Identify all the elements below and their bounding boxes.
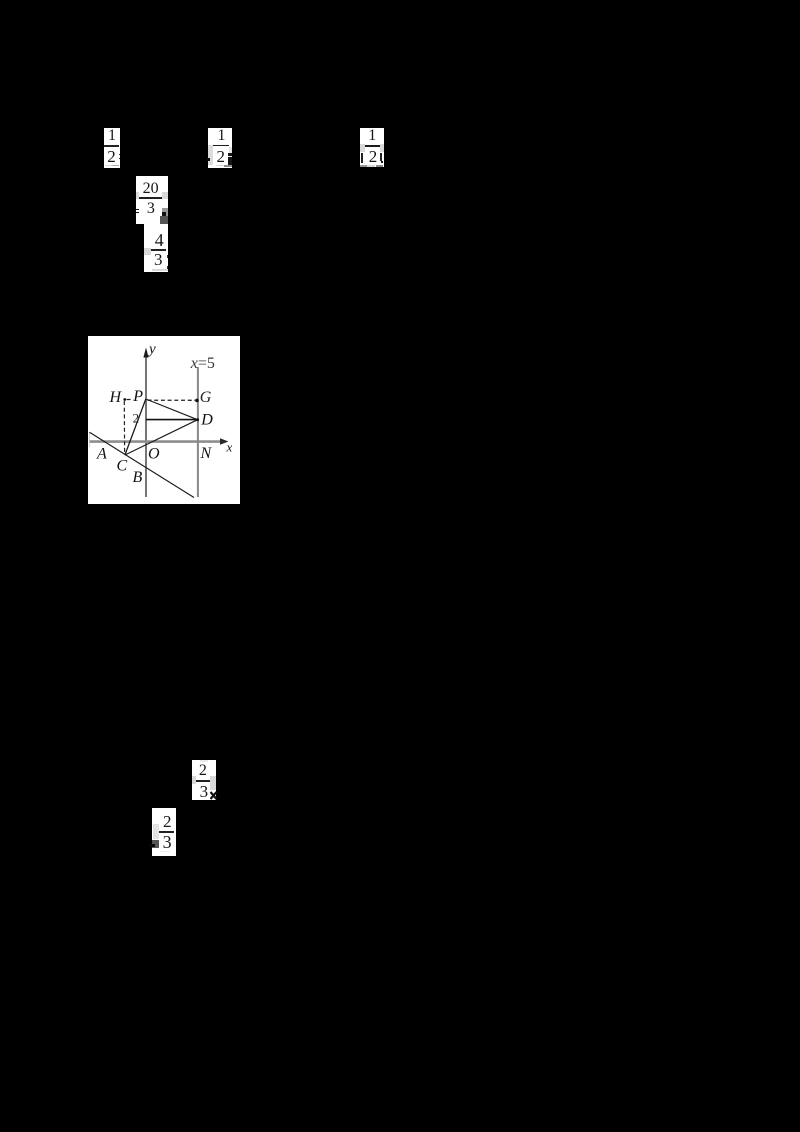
label x=5 <box>190 355 215 372</box>
fraction 1/2 (third) gray band left <box>360 144 365 152</box>
svg-text:G: G <box>200 389 212 406</box>
fraction 2/3 (upper) right wing <box>210 776 216 790</box>
svg-text:x=5: x=5 <box>190 355 215 372</box>
fraction 4/3 numerator 4 <box>151 231 167 249</box>
fraction 2/3 (lower) white patch <box>152 808 176 857</box>
fraction 4/3 white patch <box>144 224 168 272</box>
fraction 1/2 (second) left gray column <box>208 145 213 165</box>
dashed line H to C <box>123 401 125 454</box>
fraction 2/3 (lower) bottom faint strip <box>160 851 170 852</box>
fraction 2/3 (lower) black notch <box>150 844 155 848</box>
fraction 1/2 (second) numerator 1 <box>214 128 230 144</box>
fraction 2/3 (lower) left gray column <box>153 824 159 839</box>
dashed segment H to P <box>127 399 134 401</box>
svg-text:H: H <box>109 389 123 406</box>
comma after 20/3 <box>162 212 166 217</box>
dark gray block bottom right of 20/3 <box>160 216 168 223</box>
fraction 1/2 (third) gray band right <box>380 144 384 152</box>
label N <box>200 445 213 462</box>
label B <box>133 469 143 486</box>
label P <box>132 388 143 405</box>
fraction 1/2 (third) white patch <box>360 128 384 167</box>
fraction 2/3 (upper) top gray strip <box>200 760 208 761</box>
point G dot <box>195 399 199 403</box>
fraction 2/3 (upper) numerator 2 <box>195 763 211 779</box>
fraction 1/2 (first) bar <box>104 145 119 147</box>
fraction 1/2 (first) numerator 1 <box>104 128 120 144</box>
y-axis label y <box>147 342 156 358</box>
fraction 1/2 (second) white patch <box>208 128 232 168</box>
fraction 2/3 (upper) left wing <box>192 776 196 784</box>
label 2 on segment PC <box>133 411 140 426</box>
fraction 1/2 (second) bar <box>213 145 229 147</box>
line A B <box>90 432 195 497</box>
svg-text:D: D <box>200 412 213 429</box>
label C <box>117 458 128 475</box>
svg-text:B: B <box>133 469 143 486</box>
svg-text:N: N <box>200 445 213 462</box>
fraction 20/3 numerator 20 <box>143 181 159 197</box>
dark x mark bottom right of 2/3 <box>210 791 217 800</box>
fraction 1/2 (first) bottom gray strip <box>105 165 113 167</box>
svg-text:C: C <box>117 458 128 475</box>
fraction 1/2 (second) comma blob <box>228 153 231 155</box>
line x=5 <box>197 367 199 497</box>
fraction 1/2 (third) left dark bar <box>361 153 363 163</box>
svg-text:x: x <box>226 440 233 455</box>
equals sign left of 20/3 <box>135 209 140 211</box>
fraction 1/2 (third) denominator 2 <box>365 148 381 165</box>
label H <box>109 389 123 406</box>
y-axis <box>143 348 148 498</box>
fraction 2/3 (upper) denominator 3 <box>196 783 212 800</box>
svg-text:O: O <box>148 446 160 463</box>
gray block right of 3 <box>162 208 168 216</box>
fraction 2/3 (upper) bar <box>196 780 210 782</box>
point D junction <box>196 418 199 421</box>
horizontal segment O level to D <box>146 419 198 421</box>
left edge tick <box>88 432 90 447</box>
svg-text:y: y <box>147 342 156 358</box>
fraction 1/2 (third) right dark bar <box>380 153 382 161</box>
fraction 20/3 gray wings <box>136 192 139 199</box>
fraction 20/3 bar <box>139 197 162 199</box>
fraction 4/3 bar <box>151 249 166 250</box>
fraction 1/2 (second) denominator 2 <box>213 148 229 165</box>
fraction 1/2 (second) left dark dash <box>207 158 211 161</box>
fraction 2/3 (lower) denominator 3 <box>159 833 175 851</box>
svg-text:A: A <box>96 446 107 463</box>
line C to D <box>125 420 198 455</box>
fraction 4/3 left gray block <box>144 248 151 255</box>
label A <box>96 446 107 463</box>
fraction 2/3 (upper) white patch <box>192 760 216 800</box>
fraction 1/2 (second) right gray column <box>229 147 232 164</box>
fraction 2/3 (lower) numerator 2 <box>159 813 175 830</box>
dashed line P to G <box>148 399 196 401</box>
fraction 1/2 (second) bottom gray strips <box>216 165 224 167</box>
fraction =20/3, white patch <box>136 176 168 224</box>
line P to C <box>125 399 146 455</box>
fraction 1/2 (third) bottom gray strips <box>360 165 367 167</box>
svg-text:2: 2 <box>133 411 140 426</box>
fraction 1/2 (first) white patch <box>104 128 120 168</box>
point H dot <box>123 398 126 401</box>
label D <box>200 412 213 429</box>
fraction 4/3 denominator 3 <box>150 251 166 268</box>
fraction 1/2 (first) right edge dark notches <box>119 154 120 156</box>
fraction 2/3 (lower) dark gray block <box>152 840 159 848</box>
fraction 20/3 denominator 3 <box>143 201 159 217</box>
svg-text:P: P <box>132 388 143 405</box>
coordinate figure white box <box>88 336 240 504</box>
label G <box>200 389 212 406</box>
fraction 1/2 (third) bar <box>365 145 380 147</box>
line P to D <box>146 399 198 420</box>
fraction 4/3 bottom gray strip <box>152 269 168 271</box>
x-axis label x <box>226 440 233 455</box>
fraction 1/2 (first) denominator 2 <box>104 148 120 165</box>
label O <box>148 446 160 463</box>
fraction 4/3 right dark notches <box>167 255 168 258</box>
fraction 1/2 (third) right dark square <box>381 161 384 163</box>
x-axis <box>89 438 229 445</box>
fraction 1/2 (third) numerator 1 <box>364 128 380 144</box>
fraction 2/3 (lower) bar <box>159 831 174 833</box>
